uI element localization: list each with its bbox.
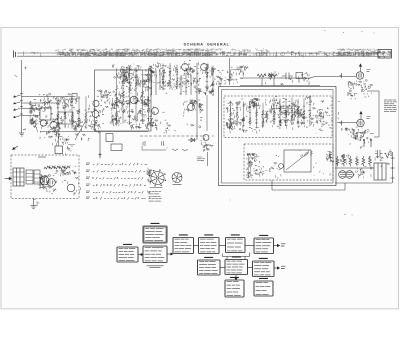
speaker bus vertical — [391, 152, 395, 183]
rectifier tube VR envelope — [40, 176, 49, 185]
IF strip left parts — [97, 90, 113, 124]
rectifier socket parts — [39, 174, 57, 194]
antenna input arrow 2 — [14, 100, 24, 104]
rectifier tube VR2 envelope — [48, 179, 56, 187]
V8 parts — [183, 100, 203, 128]
screen divider wires — [152, 63, 198, 140]
flowchart block detectrice — [226, 234, 246, 252]
VB input wire — [337, 122, 357, 124]
flowchart row link bus — [223, 253, 250, 260]
band segment C (dense) — [92, 49, 214, 57]
tone cap marks — [143, 141, 188, 151]
V9 label — [202, 159, 206, 161]
RF stage lower parts — [49, 136, 69, 146]
IF can box — [58, 112, 73, 124]
flowchart connector B8-B9 — [220, 267, 225, 269]
dropper resistor chain — [44, 166, 70, 170]
coupling network — [215, 65, 248, 86]
feedback diagonal — [286, 152, 309, 170]
coupling capacitor C12 — [111, 144, 122, 151]
IF/detector dashed shield — [224, 96, 332, 138]
tube V7 envelope — [152, 108, 159, 115]
band segment A (light) — [23, 51, 40, 57]
flowchart block haut-parleur — [254, 278, 273, 296]
B label — [281, 266, 286, 268]
output bottom wire — [335, 182, 392, 184]
volume control wire — [140, 135, 206, 137]
VB anode lead — [360, 112, 362, 120]
filter choke circle A — [339, 171, 347, 179]
amplifier left parts — [247, 153, 281, 179]
capacitor C31 — [282, 73, 293, 80]
flowchart connector B9-B11 arrow — [235, 275, 237, 281]
vibrator unit box — [55, 146, 63, 154]
tube V9 envelope — [203, 135, 209, 141]
filter choke circle B — [346, 171, 354, 179]
RF stage component chains — [57, 96, 87, 129]
feedback inner box — [284, 150, 311, 172]
capacitor C1 — [72, 94, 77, 100]
flowchart block finale BF — [253, 258, 275, 277]
oscillator cluster — [149, 60, 216, 96]
flowchart block alimentation — [225, 277, 244, 297]
antenna input arrow 4 — [14, 114, 24, 118]
RF stage component cluster — [29, 93, 91, 142]
V9 parts — [200, 135, 213, 152]
IF strip component chains — [115, 67, 149, 125]
output coupling caps — [375, 149, 392, 167]
VA label — [367, 70, 371, 72]
antenna input arrow 3 — [14, 107, 24, 111]
IF detector chains left — [229, 101, 264, 129]
output tube VA envelope — [356, 72, 363, 79]
output network resistors — [336, 156, 371, 166]
vibrator side parts — [65, 146, 73, 156]
svg-text:SCHEMA GENERAL: SCHEMA GENERAL — [184, 42, 230, 46]
harness note block — [149, 192, 162, 202]
VB cathode parts — [348, 127, 374, 149]
PSU right parts — [69, 166, 76, 175]
band segment B (medium) — [55, 49, 94, 57]
detector diode D1 — [188, 138, 196, 142]
tube V5 envelope — [182, 64, 189, 71]
plate supply wire — [240, 77, 356, 79]
antenna input arrow 1 — [14, 94, 24, 98]
flowchart block HF gamme table — [143, 223, 167, 243]
top mark above harness — [99, 154, 102, 159]
chassis unit outline — [219, 87, 337, 186]
tuning slant wire — [75, 122, 85, 140]
flowchart connector B6-B7 — [245, 244, 254, 246]
coil box L1 — [40, 108, 51, 120]
test point posts — [363, 139, 371, 147]
resistor R31 (horizontal zigzag) — [257, 74, 266, 77]
VB wire to connector column — [374, 136, 379, 138]
RF stage dark blob — [40, 121, 59, 139]
chassis unit inner edge — [222, 90, 334, 184]
marks right of chassis box — [338, 101, 348, 130]
flowchart block amplificatrice MF — [199, 234, 220, 253]
amplifier top parts — [299, 150, 313, 157]
accord notes caption — [147, 266, 164, 268]
tube socket J1 pinout — [149, 170, 166, 187]
harness lead 6 — [86, 197, 146, 200]
tube V4 envelope — [92, 111, 99, 118]
V4 surrounding parts — [89, 108, 104, 133]
coupling capacitor C40 — [375, 150, 383, 157]
flowchart connector B5-B6 — [219, 245, 226, 247]
arrow to V.L output — [274, 244, 280, 246]
IF strip dense column — [111, 64, 155, 130]
IF amplifier shield box — [95, 70, 152, 131]
plate RC filter row extras — [265, 72, 310, 85]
detector diode parts — [164, 120, 176, 133]
screen grid vertical — [206, 95, 208, 131]
VA output wire to connector — [367, 91, 379, 137]
harness lead 5 — [86, 191, 143, 194]
connector pin labels — [384, 100, 397, 111]
scan specks — [167, 30, 375, 216]
band left end block — [14, 51, 16, 58]
harness lead 3 — [86, 177, 143, 180]
mains transformer T1 — [13, 168, 24, 186]
flowchart connector B1-B3 — [138, 254, 143, 256]
flowchart connector B4-B5 — [194, 245, 199, 247]
IF strip upper fill — [115, 67, 148, 101]
tube V8 envelope — [188, 104, 195, 111]
oscillator chains — [162, 63, 214, 91]
fuse parts below box — [33, 200, 39, 206]
vibrator label — [68, 144, 75, 146]
capacitor C32 — [296, 73, 303, 83]
IF detector chains right — [273, 97, 311, 126]
harness lead 2 — [86, 170, 145, 173]
tube V4a envelope — [93, 100, 99, 106]
flowchart connector B3-B4 — [167, 253, 173, 255]
V.L label — [281, 244, 286, 246]
wire down to harness — [99, 132, 101, 157]
left bus wire — [21, 60, 23, 128]
ground symbol at bus end — [19, 128, 26, 136]
PSU ground lead — [31, 199, 37, 209]
flowchart block preamplificatrice BF — [254, 235, 274, 254]
tone control wire — [142, 146, 166, 150]
PSU label — [38, 156, 46, 158]
band segment E (dashes) — [269, 51, 337, 57]
socket J1 caption — [150, 187, 163, 189]
output mid wire — [335, 167, 374, 169]
AGC bus wire — [40, 131, 148, 133]
V9 cathode wire — [207, 152, 209, 166]
mains input arrow — [5, 177, 12, 179]
VA cathode parts — [348, 80, 373, 100]
tube V3 envelope — [130, 96, 138, 104]
tube socket J2 pinout — [172, 173, 182, 183]
ground return long wire — [272, 180, 345, 190]
terminal label a — [25, 67, 27, 70]
RC row wires — [240, 78, 320, 86]
filter block 1 — [26, 170, 33, 184]
flowchart connector B9-B10 — [248, 267, 253, 269]
tube V6 envelope — [201, 64, 208, 71]
VA grid terminal — [340, 73, 342, 78]
flowchart block changeuse de frequence — [173, 234, 194, 253]
IF detector row left — [226, 98, 269, 134]
PSU middle parts — [56, 168, 70, 184]
top band rails (wave-switch strip) — [17, 53, 391, 56]
flowchart block accord notes — [143, 246, 167, 263]
band segment D (medium) — [213, 49, 270, 57]
edge tick — [15, 76, 18, 77]
wire grid bus to RF stage — [22, 97, 76, 116]
output network extra parts — [338, 154, 370, 166]
harness lead 4 — [86, 184, 146, 187]
harness legend strip — [147, 168, 153, 199]
band segment F (dense) — [336, 49, 381, 57]
socket J2 caption — [173, 184, 182, 186]
IF detector row right — [270, 96, 316, 130]
IF detector row far right — [315, 100, 332, 133]
PSU far right parts — [74, 177, 81, 195]
filter block 2 — [34, 170, 40, 184]
AF amplifier dashed box — [244, 144, 333, 180]
flowchart block CAV — [198, 257, 221, 275]
chassis arrow lower left — [13, 146, 19, 150]
VB grid terminal — [340, 121, 342, 126]
output tube VB envelope — [357, 119, 364, 126]
decoupling capacitor C9 — [106, 134, 113, 142]
tube V1 envelope — [40, 120, 46, 126]
harness corner label — [197, 157, 202, 161]
amplifier right parts — [314, 151, 335, 176]
rectifier pins — [43, 178, 53, 185]
resistor R32 (horizontal zigzag) — [269, 74, 278, 77]
VB label — [367, 117, 371, 119]
arrow to B output — [274, 267, 280, 269]
electrolytic capacitor CE — [67, 184, 75, 192]
harness lead 1 — [86, 163, 147, 166]
flowchart block amplificatrice BF — [225, 256, 248, 274]
band drop wire — [229, 58, 231, 85]
output misc parts — [354, 167, 372, 178]
flowchart block BL cadre (frame aerial) — [117, 244, 138, 262]
wire RF to vibrator — [58, 133, 60, 146]
band right box fill — [379, 51, 392, 59]
tube V2 envelope — [50, 121, 57, 128]
V7 parts — [146, 106, 168, 130]
power supply dashed box — [11, 155, 79, 199]
output transformer T2 — [374, 163, 386, 180]
pilot lamp — [279, 164, 284, 169]
band right end box — [378, 50, 392, 59]
VA anode lead — [359, 64, 361, 72]
